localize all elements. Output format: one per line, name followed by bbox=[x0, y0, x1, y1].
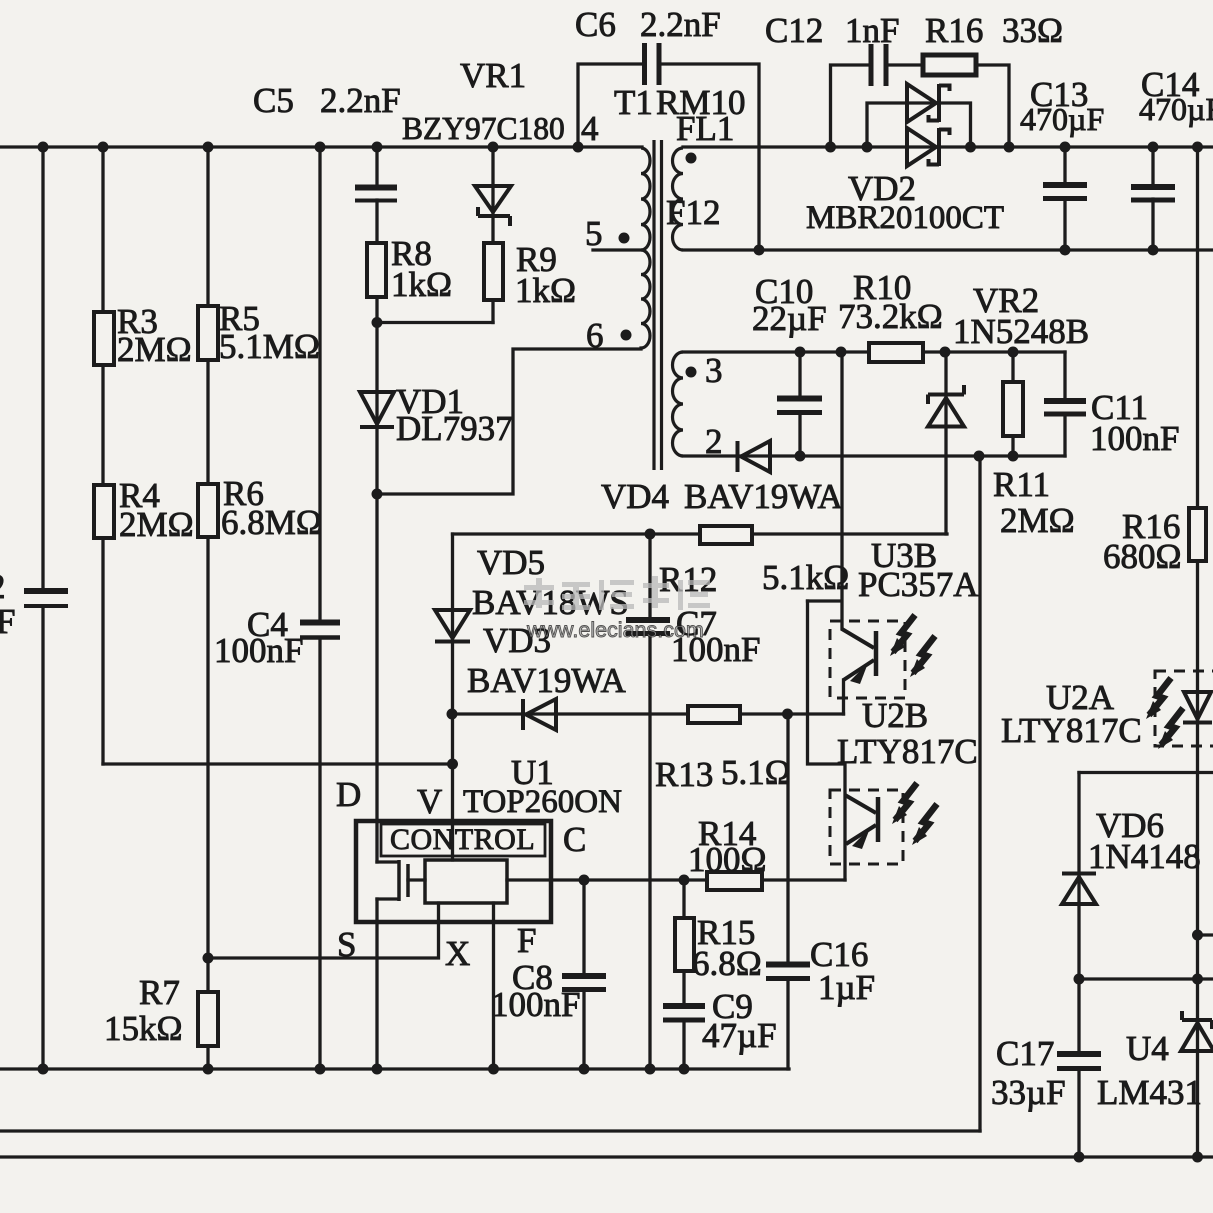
svg-text:2.2nF: 2.2nF bbox=[320, 81, 401, 120]
svg-text:680Ω: 680Ω bbox=[1103, 537, 1182, 576]
svg-text:R12: R12 bbox=[659, 560, 717, 599]
svg-text:33Ω: 33Ω bbox=[1002, 11, 1063, 50]
svg-text:R7: R7 bbox=[139, 973, 180, 1012]
svg-text:F12: F12 bbox=[666, 193, 720, 232]
svg-text:VR1: VR1 bbox=[460, 56, 526, 95]
svg-text:47µF: 47µF bbox=[702, 1016, 777, 1055]
svg-text:R11: R11 bbox=[993, 465, 1050, 504]
svg-text:2: 2 bbox=[705, 422, 723, 461]
svg-text:2: 2 bbox=[0, 567, 6, 606]
svg-text:VD4: VD4 bbox=[601, 477, 669, 516]
svg-text:www.elecians.com: www.elecians.com bbox=[526, 618, 704, 642]
svg-text:5: 5 bbox=[585, 214, 603, 253]
svg-text:CONTROL: CONTROL bbox=[390, 823, 535, 856]
svg-text:1nF: 1nF bbox=[845, 11, 899, 50]
svg-text:C12: C12 bbox=[765, 11, 823, 50]
svg-text:5.1MΩ: 5.1MΩ bbox=[219, 327, 320, 366]
svg-text:VD5: VD5 bbox=[477, 543, 545, 582]
svg-text:22µF: 22µF bbox=[752, 299, 827, 338]
svg-text:6.8Ω: 6.8Ω bbox=[692, 944, 762, 983]
svg-text:C: C bbox=[563, 820, 586, 859]
svg-text:FL1: FL1 bbox=[676, 109, 734, 148]
svg-text:BAV19WA: BAV19WA bbox=[684, 477, 844, 516]
svg-text:3: 3 bbox=[705, 351, 723, 390]
svg-text:TOP260ON: TOP260ON bbox=[463, 784, 622, 820]
svg-text:R13: R13 bbox=[655, 755, 713, 794]
svg-text:BZY97C180: BZY97C180 bbox=[402, 111, 565, 146]
svg-text:1kΩ: 1kΩ bbox=[391, 265, 452, 304]
svg-text:S: S bbox=[337, 925, 356, 964]
svg-text:100nF: 100nF bbox=[214, 631, 303, 670]
svg-text:LM431: LM431 bbox=[1097, 1073, 1202, 1112]
svg-text:1N4148: 1N4148 bbox=[1088, 837, 1201, 876]
svg-text:470µF: 470µF bbox=[1139, 91, 1213, 127]
svg-text:6.8MΩ: 6.8MΩ bbox=[221, 503, 322, 542]
svg-text:2MΩ: 2MΩ bbox=[1000, 501, 1075, 540]
svg-text:MBR20100CT: MBR20100CT bbox=[806, 200, 1004, 236]
svg-text:PC357A: PC357A bbox=[858, 565, 979, 604]
svg-text:D: D bbox=[336, 775, 361, 814]
svg-text:LTY817C: LTY817C bbox=[837, 732, 978, 771]
svg-text:470µF: 470µF bbox=[1020, 101, 1104, 137]
svg-text:5.1Ω: 5.1Ω bbox=[721, 753, 791, 792]
svg-text:100Ω: 100Ω bbox=[688, 840, 767, 879]
svg-text:V: V bbox=[417, 782, 442, 821]
svg-text:LTY817C: LTY817C bbox=[1001, 711, 1142, 750]
svg-text:C5: C5 bbox=[253, 81, 294, 120]
svg-text:U2B: U2B bbox=[862, 696, 928, 735]
svg-text:100nF: 100nF bbox=[1090, 419, 1179, 458]
svg-text:F: F bbox=[517, 921, 536, 960]
svg-text:C6: C6 bbox=[575, 5, 616, 44]
svg-text:T1: T1 bbox=[614, 83, 653, 122]
svg-text:X: X bbox=[445, 934, 470, 973]
svg-text:2MΩ: 2MΩ bbox=[119, 505, 194, 544]
svg-text:DL7937: DL7937 bbox=[396, 409, 513, 448]
svg-text:U4: U4 bbox=[1126, 1029, 1169, 1068]
svg-text:1kΩ: 1kΩ bbox=[515, 271, 576, 310]
svg-text:F: F bbox=[0, 602, 15, 641]
svg-text:2MΩ: 2MΩ bbox=[117, 330, 192, 369]
svg-text:1N5248B: 1N5248B bbox=[953, 312, 1089, 351]
svg-text:R16: R16 bbox=[925, 11, 983, 50]
svg-text:1µF: 1µF bbox=[818, 968, 875, 1007]
svg-text:BAV19WA: BAV19WA bbox=[467, 661, 627, 700]
svg-text:73.2kΩ: 73.2kΩ bbox=[838, 297, 943, 336]
svg-text:2.2nF: 2.2nF bbox=[640, 5, 721, 44]
svg-text:15kΩ: 15kΩ bbox=[104, 1009, 183, 1048]
svg-text:100nF: 100nF bbox=[491, 985, 580, 1024]
svg-text:4: 4 bbox=[581, 109, 599, 148]
svg-text:C17: C17 bbox=[996, 1034, 1054, 1073]
svg-text:5.1kΩ: 5.1kΩ bbox=[762, 558, 849, 597]
svg-text:6: 6 bbox=[586, 316, 604, 355]
svg-text:33µF: 33µF bbox=[991, 1073, 1066, 1112]
